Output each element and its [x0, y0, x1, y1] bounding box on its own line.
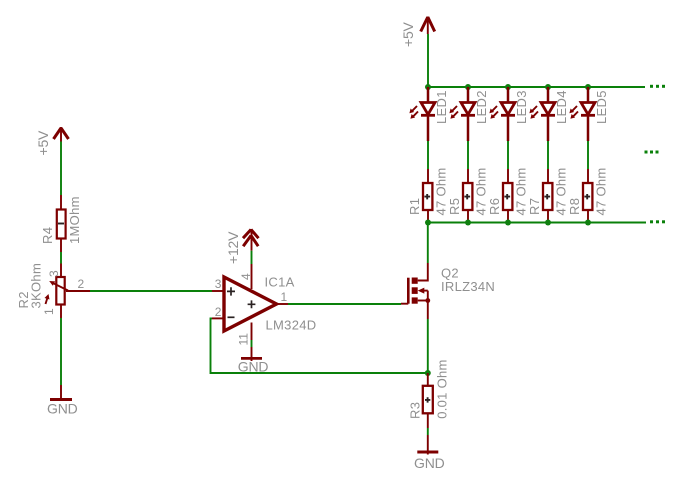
svg-text:GND: GND	[414, 455, 445, 471]
continuation dots top rail	[650, 85, 665, 88]
svg-text:2: 2	[215, 305, 222, 319]
svg-text:R7: R7	[527, 198, 542, 215]
svg-text:R1: R1	[407, 198, 422, 215]
svg-text:R6: R6	[487, 198, 502, 215]
svg-text:+12V: +12V	[225, 231, 241, 264]
resistor R4	[57, 195, 66, 252]
junction bottom rail R6	[505, 220, 511, 226]
svg-text:3: 3	[47, 270, 61, 277]
svg-text:R3: R3	[408, 402, 423, 419]
svg-text:11: 11	[237, 333, 251, 346]
svg-text:R4: R4	[40, 227, 55, 244]
wire LED1 to R1	[427, 141, 429, 169]
svg-text:2: 2	[78, 277, 85, 291]
LED LED3	[489, 87, 515, 141]
svg-text:IRLZ34N: IRLZ34N	[441, 279, 495, 294]
junction top rail LED3	[505, 84, 511, 90]
transistor Q2	[401, 263, 430, 319]
svg-text:LED2: LED2	[474, 90, 489, 124]
junction sense node	[425, 370, 431, 376]
svg-text:+5V: +5V	[400, 21, 416, 47]
svg-text:0.01 Ohm: 0.01 Ohm	[434, 359, 449, 418]
svg-text:IC1A: IC1A	[265, 275, 295, 290]
ground symbol GND (left)	[50, 385, 72, 401]
wire R2 to GND	[60, 318, 62, 385]
svg-text:+5V: +5V	[35, 130, 51, 156]
wire +12V to pin4	[251, 251, 253, 264]
supply symbol +5V (top right)	[421, 17, 435, 35]
svg-text:4: 4	[239, 273, 253, 280]
wire op-amp output to Q2 gate	[288, 303, 401, 305]
continuation dots bottom rail	[650, 220, 665, 223]
LED LED5	[569, 87, 595, 141]
wire LED2 to R5	[467, 141, 469, 169]
supply symbol +5V (left)	[54, 127, 69, 142]
ground symbol GND (R3)	[417, 435, 438, 455]
ground symbol GND (op-amp)	[241, 347, 262, 361]
supply symbol +12V	[243, 229, 259, 251]
svg-text:1: 1	[281, 290, 288, 304]
junction bottom rail R5	[465, 220, 471, 226]
wire drain to bottom rail	[427, 223, 429, 264]
junction top rail LED4	[545, 84, 551, 90]
resistor R3	[423, 373, 433, 428]
svg-text:R8: R8	[567, 198, 582, 215]
svg-text:3KOhm: 3KOhm	[29, 263, 44, 309]
junction top rail LED1	[425, 84, 431, 90]
svg-text:LED5: LED5	[594, 90, 609, 124]
wire pin11 to GND	[251, 340, 253, 347]
svg-text:1MOhm: 1MOhm	[67, 196, 82, 244]
svg-text:1: 1	[42, 308, 56, 315]
LED LED1	[409, 87, 435, 141]
junction bottom rail R8	[585, 220, 591, 226]
bottom rail wire	[428, 222, 646, 224]
LED LED2	[449, 87, 475, 141]
wire R2 wiper to op-amp pin3	[90, 290, 212, 292]
svg-text:3: 3	[215, 277, 222, 291]
svg-text:GND: GND	[47, 401, 78, 417]
potentiometer R2	[45, 264, 91, 319]
svg-text:47 Ohm: 47 Ohm	[594, 167, 609, 215]
junction top rail LED2	[465, 84, 471, 90]
svg-text:LED4: LED4	[554, 90, 569, 124]
continuation dots middle	[645, 151, 659, 154]
junction bottom rail R7	[545, 220, 551, 226]
resistor R1	[423, 169, 432, 223]
wire LED5 to R8	[587, 141, 589, 169]
svg-text:LED1: LED1	[434, 90, 449, 124]
junction bottom rail R1	[425, 220, 431, 226]
wire LED3 to R6	[507, 141, 509, 169]
feedback wire pin2 to sense node	[211, 318, 428, 373]
wire source to sense node	[427, 319, 429, 373]
LED LED4	[529, 87, 555, 141]
junction top rail LED5	[585, 84, 591, 90]
op-amp IC1A	[212, 264, 288, 340]
svg-text:R5: R5	[447, 198, 462, 215]
resistor R6	[503, 169, 512, 223]
wire LED4 to R7	[547, 141, 549, 169]
svg-text:LED3: LED3	[514, 90, 529, 124]
resistor R7	[543, 169, 552, 223]
wire +5V to top rail	[427, 34, 429, 87]
wire R4 to R2	[60, 252, 62, 264]
resistor R5	[463, 169, 472, 223]
wire +5V to R4	[60, 142, 62, 196]
svg-text:LM324D: LM324D	[266, 318, 317, 333]
top rail wire	[428, 86, 645, 88]
resistor R8	[583, 169, 592, 223]
wire R3 to GND	[427, 428, 429, 435]
